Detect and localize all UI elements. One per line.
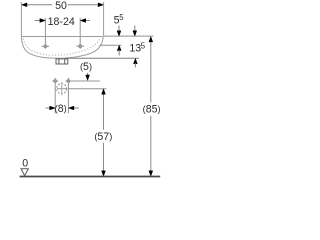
node: arrowhead (57) up	[102, 89, 106, 94]
wire: 5.5 lower arrow stem	[118, 50, 120, 56]
node: crosshair left (55.2, 81)	[54, 80, 57, 83]
wire: tap hole centerline right (x=80.2)	[79, 18, 81, 49]
wire: extension line left (basin left edge, x=21.4)	[20, 2, 22, 36]
wire: reference line A (rim top level, y=36.1)	[104, 35, 154, 37]
node: arrowhead (85) down	[149, 171, 153, 176]
node: arrowhead 5.5 up	[117, 45, 121, 50]
wire: dimension line (85) vertical x=150.8	[150, 41, 152, 102]
wire: (5) arrow stem	[87, 73, 89, 76]
node: arrowhead 18-24 right	[80, 19, 85, 23]
svg-text:13: 13	[129, 43, 141, 55]
wire: circle vertical centerline	[61, 82, 63, 83]
washbasin outline top rim	[21, 36, 102, 38]
washbasin outer bowl curve	[21, 36, 103, 58]
svg-text:18-24: 18-24	[48, 16, 75, 28]
wire: tap hole centerline left (x=45.4)	[44, 18, 46, 49]
wire: reference line B (apron bottom level, y=45.2)	[100, 44, 122, 46]
wire: dimension 18-24 stems	[35, 20, 41, 22]
wire: reference line C (basin bottom level, y=58.3)	[65, 57, 139, 59]
drain fitting box under basin	[56, 59, 68, 64]
node: arrowhead (5) down	[86, 75, 90, 80]
svg-text:(8): (8)	[55, 103, 67, 115]
svg-text:5: 5	[141, 41, 146, 50]
wire: drop line from left crosshair to (8) tick	[54, 78, 56, 114]
node: arrowhead 50 right	[98, 3, 103, 7]
node: arrowhead (8) left	[50, 106, 55, 110]
node: arrowhead 13.5 down	[133, 31, 137, 36]
svg-text:5: 5	[119, 13, 124, 22]
svg-text:(57): (57)	[94, 131, 112, 143]
node: arrowhead 50 left	[22, 3, 27, 7]
wire: 13.5 lower arrow stem	[134, 63, 136, 67]
wire: 5.5 upper arrow stem	[118, 26, 120, 32]
wire: trap inlet line L1 (y=81)	[52, 80, 58, 82]
wire: drop line from right crosshair to (8) tick	[67, 78, 69, 114]
drain pipe circle (dashed, Ø5)	[57, 84, 67, 94]
node: tap hole cross right (80.2, 46.2)	[76, 45, 84, 48]
node: arrowhead (57) down	[102, 171, 106, 176]
node: arrowhead 18-24 left	[40, 19, 45, 23]
svg-text:50: 50	[55, 0, 67, 12]
node: arrowhead (85) up	[149, 37, 153, 42]
node: tap hole cross left (45.4, 46.3)	[42, 45, 50, 48]
node: datum triangle	[21, 169, 28, 176]
wire: dimension line (57) vertical x=103.5	[103, 93, 105, 130]
svg-text:(85): (85)	[143, 103, 161, 115]
node: crosshair right (68.4, 81)	[67, 80, 70, 83]
wire: extension line right (basin right edge, x=103.6)	[103, 2, 105, 36]
wire: dimension line 50	[23, 4, 102, 6]
wire: 13.5 upper arrow stem	[134, 25, 136, 31]
wire: dimension (8) stems	[46, 107, 51, 109]
node: arrowhead 13.5 up	[134, 59, 138, 64]
svg-text:0: 0	[22, 158, 28, 170]
washbasin inner rim (hidden edge, dashed)	[23, 38, 100, 55]
node: arrowhead (8) right	[69, 106, 74, 110]
wire: trap outlet centerline L2 (y=88.7)	[54, 88, 57, 90]
node: arrowhead 5.5 down	[117, 31, 121, 36]
svg-text:(5): (5)	[80, 61, 92, 73]
floor line	[20, 176, 161, 178]
